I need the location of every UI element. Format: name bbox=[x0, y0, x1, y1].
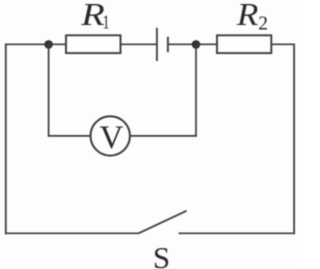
svg-text:2: 2 bbox=[258, 13, 268, 34]
voltmeter V circle bbox=[91, 116, 130, 155]
wire voltmeter right riser bbox=[195, 44, 197, 136]
svg-text:S: S bbox=[153, 240, 170, 269]
wire voltmeter to right riser bbox=[131, 135, 197, 137]
battery long plate bbox=[156, 28, 158, 61]
wire node A to R1 bbox=[49, 43, 66, 45]
wire bottom-right to switch bbox=[179, 232, 295, 234]
wire switch to bottom-left bbox=[6, 232, 139, 234]
node B (right junction dot) bbox=[192, 40, 201, 49]
resistor R2 bbox=[217, 35, 271, 53]
battery short plate bbox=[167, 37, 169, 52]
wire top-left horizontal bbox=[6, 43, 49, 45]
wire voltmeter left riser bbox=[48, 44, 50, 136]
svg-text:R: R bbox=[236, 0, 259, 33]
node A (left junction dot) bbox=[44, 40, 53, 49]
switch S blade bbox=[138, 211, 187, 234]
svg-text:1: 1 bbox=[103, 11, 110, 33]
wire riser to voltmeter bbox=[48, 135, 90, 137]
svg-text:R: R bbox=[80, 0, 105, 32]
wire battery to node B bbox=[169, 43, 197, 45]
wire right vertical bbox=[293, 44, 295, 235]
wire left vertical bbox=[5, 44, 7, 235]
svg-text:V: V bbox=[99, 120, 123, 156]
wire R2 to top-right corner bbox=[271, 43, 294, 45]
wire node B to R2 bbox=[196, 43, 217, 45]
resistor R1 bbox=[66, 35, 121, 53]
wire R1 to battery bbox=[121, 43, 156, 45]
